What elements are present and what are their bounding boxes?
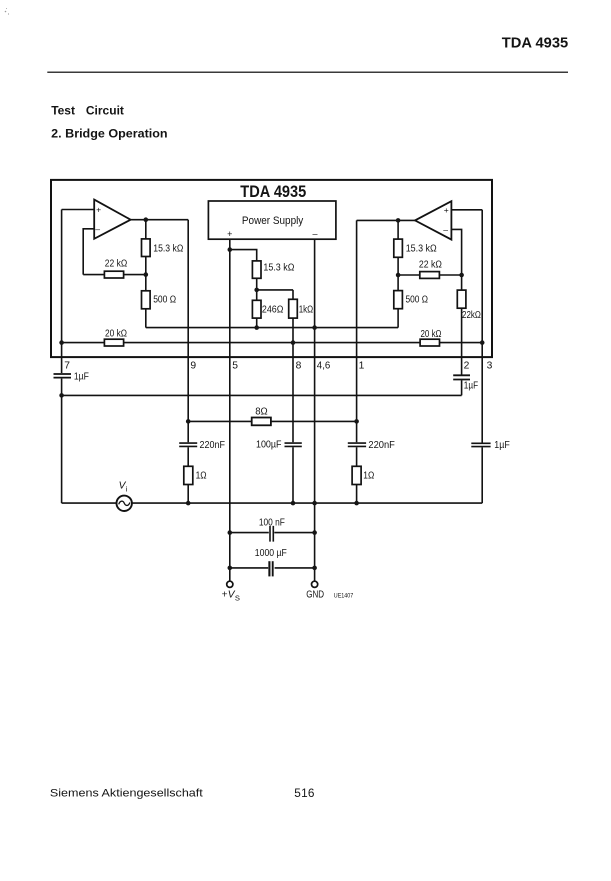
svg-text:–: – [312, 228, 317, 238]
capacitor 100nF [259, 517, 285, 541]
wire: branch to 1k [257, 289, 293, 291]
svg-text:–: – [443, 225, 448, 235]
svg-text:1000 µF: 1000 µF [255, 548, 287, 559]
svg-text:TDA 4935: TDA 4935 [240, 183, 306, 201]
capacitor 1uF right [471, 440, 510, 451]
svg-text:+: + [227, 229, 232, 239]
svg-text:i: i [126, 485, 128, 494]
resistor 1 ohm left [184, 466, 207, 484]
svg-text:500 Ω: 500 Ω [153, 294, 176, 305]
svg-text:8Ω: 8Ω [255, 406, 268, 417]
resistor 22k right horizontal [419, 259, 442, 278]
node: minus supply / mid bus [312, 325, 317, 330]
node: 8ohm right end [354, 419, 359, 424]
resistor 500 right [394, 291, 428, 309]
wire: pin 2 / 22k vertical [461, 275, 463, 395]
scan specks [5, 8, 9, 15]
capacitor 220nF right [348, 440, 395, 451]
node: ref bus / pin3 line [480, 340, 485, 345]
node: rail / gnd tap [312, 501, 317, 506]
node: center divider mid [254, 288, 259, 293]
resistor 22k left [104, 259, 127, 278]
svg-text:Power Supply: Power Supply [242, 215, 304, 227]
wire: return bus y=395.4 [62, 394, 462, 396]
svg-text:GND: GND [306, 589, 324, 600]
wire: +supply branch to center divider [230, 250, 257, 328]
wire: pin 9 vertical [187, 220, 189, 503]
svg-text:1kΩ: 1kΩ [299, 304, 314, 315]
svg-text:+: + [222, 590, 228, 601]
node: right output junction [396, 218, 401, 223]
node: 1000uF right [312, 566, 317, 571]
node: 1000uF left [228, 566, 233, 571]
wire: right op-amp output [357, 219, 415, 221]
svg-text:+: + [444, 205, 449, 215]
wire: mid horizontal bus y=327.6 [146, 327, 398, 329]
wire: input reference bus y=342.6 [62, 342, 483, 344]
svg-text:1Ω: 1Ω [363, 470, 374, 481]
svg-text:516: 516 [294, 786, 315, 800]
terminal +Vs [222, 581, 240, 602]
svg-text:4,6: 4,6 [317, 360, 331, 371]
wire: left +input horizontal [62, 209, 95, 211]
svg-text:1: 1 [359, 360, 365, 371]
IC boundary box TDA 4935 [51, 180, 492, 357]
node: 246 bottom [254, 325, 259, 330]
resistor 20k right [420, 329, 442, 346]
wire: pin 7 vertical upper [61, 210, 63, 374]
node: rail / left 1ohm [186, 501, 191, 506]
svg-text:1µF: 1µF [464, 381, 478, 392]
resistor 22k right vertical [457, 290, 481, 321]
wire: bottom signal rail [62, 502, 483, 504]
source Vi [117, 481, 132, 511]
svg-text:2: 2 [464, 360, 470, 371]
svg-text:Siemens Aktiengesellschaft: Siemens Aktiengesellschaft [50, 787, 204, 799]
wire: right -input to feedback [451, 229, 461, 275]
svg-text:+: + [96, 205, 101, 215]
svg-text:1µF: 1µF [74, 372, 89, 383]
wire: left divider chain vertical [145, 220, 147, 328]
svg-text:246Ω: 246Ω [262, 304, 284, 315]
wire: pin 5 +supply vertical [229, 239, 231, 581]
wire: left 22k feedback line [83, 274, 146, 276]
node: 1k bottom / ref bus [291, 340, 296, 345]
wire: right 22k feedback line [398, 274, 462, 276]
wire: pin 7 vertical below cap [61, 379, 63, 504]
wire: left op-amp output [131, 219, 189, 221]
wire: right +input horizontal [451, 209, 482, 211]
op-amp U1 left [94, 200, 130, 239]
svg-text:2. Bridge Operation: 2. Bridge Operation [51, 127, 167, 141]
svg-text:3: 3 [487, 360, 493, 371]
node: pin7 / 20k bus [59, 340, 64, 345]
resistor 15.3k left [142, 239, 184, 257]
capacitor 1uF pin2 [453, 375, 478, 391]
svg-text:22 kΩ: 22 kΩ [419, 259, 442, 270]
svg-text:15.3 kΩ: 15.3 kΩ [406, 244, 437, 255]
wire: pin 3 vertical [481, 210, 483, 503]
svg-text:22 kΩ: 22 kΩ [105, 259, 128, 270]
node: 8ohm left end [186, 419, 191, 424]
svg-text:9: 9 [190, 360, 196, 371]
wire: pin 1 vertical [356, 220, 358, 503]
svg-text:15.3 kΩ: 15.3 kΩ [263, 263, 294, 274]
capacitor 220nF left [179, 440, 225, 451]
wire: pin 4,6 ground vertical [314, 239, 316, 581]
svg-text:1Ω: 1Ω [196, 470, 207, 481]
capacitor 100uF [256, 440, 302, 451]
svg-text:TDA 4935: TDA 4935 [502, 35, 568, 51]
wire: 8 ohm load line [188, 420, 356, 422]
svg-text:220nF: 220nF [200, 440, 226, 451]
wire: right divider chain vertical [397, 220, 399, 327]
svg-text:TestCircuit: TestCircuit [51, 103, 124, 117]
wire: 1000uF leads [230, 567, 315, 569]
node: right 22k / -input [459, 273, 464, 278]
svg-text:20 kΩ: 20 kΩ [105, 329, 127, 340]
node: 100nF right [312, 530, 317, 535]
resistor 500 left [142, 291, 177, 309]
svg-text:8: 8 [296, 360, 302, 371]
svg-text:S: S [235, 593, 240, 602]
svg-text:5: 5 [232, 360, 238, 371]
op-amp U2 right [415, 201, 451, 239]
header rule [47, 71, 568, 73]
svg-text:15.3 kΩ: 15.3 kΩ [153, 243, 183, 254]
wire: 100nF leads [230, 532, 315, 534]
svg-text:7: 7 [64, 360, 70, 371]
node: 100nF left [228, 530, 233, 535]
power supply box U-PS [208, 201, 336, 239]
svg-text:220nF: 220nF [368, 440, 395, 451]
svg-text:UE1407: UE1407 [334, 592, 354, 599]
node: right 15.3k/22k/500 junction [396, 273, 401, 278]
svg-text:500 Ω: 500 Ω [406, 294, 429, 305]
node: rail / right 1ohm [354, 501, 359, 506]
capacitor 1000uF [255, 548, 287, 576]
terminal GND [306, 581, 324, 600]
node: left 22k/500 junction [144, 272, 149, 277]
node: left output junction [144, 217, 149, 222]
resistor 1k center [289, 299, 314, 318]
svg-text:100 nF: 100 nF [259, 517, 285, 528]
wire: left -input to feedback [83, 229, 94, 275]
resistor 15.3k right [394, 239, 437, 257]
node: left cap bottom tee [59, 393, 64, 398]
capacitor 1uF pin7 [54, 372, 89, 383]
resistor 1 ohm right [352, 466, 374, 484]
resistor 8 ohm load [252, 406, 271, 425]
wire: pin 8 vertical [292, 290, 294, 503]
svg-text:100µF: 100µF [256, 440, 282, 451]
resistor 20k left [104, 329, 127, 346]
node: +supply branch [228, 247, 233, 252]
svg-text:–: – [95, 224, 100, 234]
svg-text:20 kΩ: 20 kΩ [421, 329, 442, 340]
resistor 246 center [252, 300, 283, 318]
resistor 15.3k center [252, 261, 294, 278]
svg-text:1µF: 1µF [494, 440, 510, 451]
svg-text:22kΩ: 22kΩ [462, 310, 481, 321]
node: rail / 100uF [291, 501, 296, 506]
